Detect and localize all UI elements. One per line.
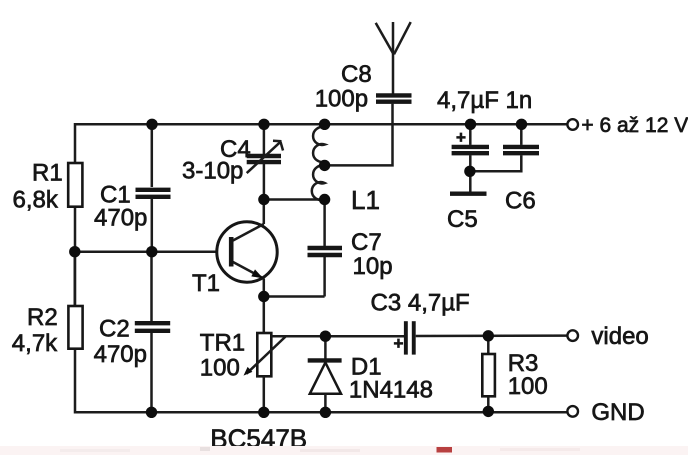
svg-text:C8: C8 (341, 61, 372, 88)
svg-text:video: video (591, 323, 648, 350)
svg-text:GND: GND (591, 399, 644, 426)
svg-text:C7: C7 (351, 229, 382, 256)
svg-text:6,8k: 6,8k (13, 187, 59, 214)
svg-text:R2: R2 (27, 304, 58, 331)
svg-text:TR1: TR1 (200, 330, 245, 357)
svg-text:100: 100 (508, 373, 548, 400)
svg-text:100p: 100p (315, 86, 368, 113)
svg-text:470p: 470p (94, 341, 147, 368)
svg-text:R1: R1 (32, 160, 63, 187)
svg-text:L1: L1 (351, 185, 380, 215)
svg-text:1N4148: 1N4148 (349, 377, 433, 404)
svg-text:+: + (456, 128, 466, 147)
svg-text:10p: 10p (353, 253, 393, 280)
svg-text:C3 4,7µF: C3 4,7µF (371, 290, 470, 317)
svg-text:C6: C6 (505, 188, 536, 215)
svg-text:100: 100 (200, 355, 240, 382)
svg-text:4,7µF 1n: 4,7µF 1n (437, 87, 532, 114)
svg-text:T1: T1 (192, 270, 220, 297)
svg-text:3-10p: 3-10p (182, 158, 243, 185)
svg-text:+ 6 až 12 V: + 6 až 12 V (581, 114, 688, 137)
svg-text:+: + (394, 334, 404, 353)
svg-text:C2: C2 (99, 316, 130, 343)
svg-text:470p: 470p (94, 205, 147, 232)
svg-text:C5: C5 (447, 206, 478, 233)
svg-text:4,7k: 4,7k (12, 330, 58, 357)
